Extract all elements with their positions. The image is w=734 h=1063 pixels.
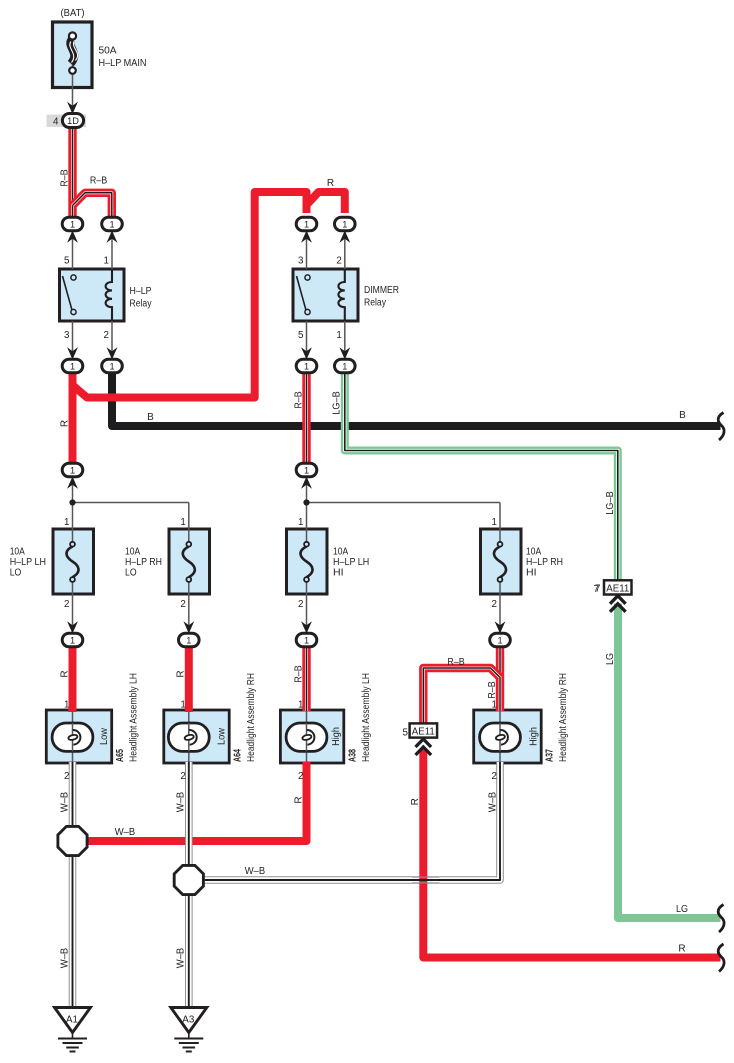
- svg-text:B: B: [679, 410, 686, 421]
- svg-text:Low: Low: [98, 728, 110, 745]
- svg-text:2: 2: [64, 771, 69, 782]
- svg-text:LG: LG: [605, 653, 616, 665]
- svg-text:1: 1: [492, 700, 497, 711]
- svg-text:R–B: R–B: [487, 681, 498, 699]
- svg-text:A37: A37: [545, 749, 556, 762]
- svg-text:Headlight Assembly RH: Headlight Assembly RH: [246, 673, 257, 762]
- svg-text:R: R: [678, 944, 685, 955]
- svg-text:5: 5: [298, 330, 304, 341]
- svg-text:1: 1: [180, 700, 185, 711]
- svg-text:A64: A64: [233, 749, 244, 762]
- svg-text:Headlight Assembly LH: Headlight Assembly LH: [361, 673, 372, 762]
- svg-text:3: 3: [298, 256, 304, 267]
- svg-text:1: 1: [342, 361, 347, 371]
- svg-text:50A: 50A: [99, 46, 117, 57]
- svg-text:LG–B: LG–B: [605, 491, 616, 515]
- svg-text:R: R: [327, 178, 334, 189]
- svg-text:2: 2: [180, 599, 185, 610]
- svg-text:R–B: R–B: [293, 665, 304, 683]
- svg-text:1: 1: [492, 517, 497, 528]
- svg-text:HI: HI: [526, 567, 537, 578]
- svg-text:1: 1: [64, 700, 69, 711]
- svg-text:1: 1: [70, 361, 75, 371]
- svg-text:Relay: Relay: [364, 298, 386, 309]
- svg-text:H–LP MAIN: H–LP MAIN: [99, 58, 147, 69]
- svg-text:Relay: Relay: [130, 299, 152, 310]
- svg-text:1: 1: [304, 465, 309, 475]
- svg-text:1: 1: [104, 256, 109, 267]
- svg-text:1: 1: [304, 361, 309, 371]
- svg-text:A1: A1: [66, 1015, 78, 1026]
- svg-text:5: 5: [403, 728, 409, 739]
- svg-text:R: R: [410, 798, 421, 805]
- svg-text:High: High: [528, 727, 540, 746]
- svg-text:LO: LO: [125, 567, 137, 578]
- svg-text:LO: LO: [10, 567, 22, 578]
- svg-text:A38: A38: [347, 749, 358, 762]
- svg-text:2: 2: [336, 256, 341, 267]
- svg-text:2: 2: [492, 771, 497, 782]
- svg-text:R: R: [59, 670, 70, 677]
- svg-text:1: 1: [70, 465, 75, 475]
- svg-text:W–B: W–B: [245, 866, 266, 877]
- svg-text:A65: A65: [115, 749, 126, 762]
- svg-text:Headlight Assembly RH: Headlight Assembly RH: [558, 673, 569, 762]
- svg-text:1: 1: [109, 219, 114, 229]
- svg-text:4: 4: [53, 117, 59, 128]
- svg-text:10A: 10A: [125, 547, 140, 558]
- svg-text:W–B: W–B: [176, 947, 187, 968]
- svg-text:High: High: [330, 727, 342, 746]
- svg-text:7: 7: [594, 584, 599, 595]
- svg-text:LG–B: LG–B: [332, 391, 343, 415]
- svg-text:R: R: [293, 796, 304, 803]
- svg-text:R–B: R–B: [293, 391, 304, 409]
- svg-text:W–B: W–B: [59, 791, 70, 812]
- svg-text:(BAT): (BAT): [61, 8, 85, 19]
- svg-text:2: 2: [64, 599, 69, 610]
- svg-text:W–B: W–B: [488, 791, 499, 812]
- svg-text:R: R: [59, 420, 70, 427]
- svg-text:AE11: AE11: [412, 726, 435, 737]
- svg-text:Low: Low: [216, 728, 228, 745]
- svg-text:1: 1: [304, 635, 309, 645]
- svg-text:Headlight Assembly LH: Headlight Assembly LH: [129, 673, 140, 762]
- svg-text:2: 2: [104, 330, 109, 341]
- svg-text:3: 3: [64, 330, 70, 341]
- svg-text:R–B: R–B: [447, 657, 465, 668]
- svg-text:1: 1: [342, 219, 347, 229]
- svg-text:1: 1: [298, 700, 303, 711]
- svg-text:1: 1: [70, 219, 75, 229]
- svg-text:1: 1: [304, 219, 309, 229]
- svg-text:1: 1: [186, 635, 191, 645]
- svg-text:1: 1: [70, 635, 75, 645]
- svg-text:DIMMER: DIMMER: [364, 285, 399, 296]
- svg-text:AE11: AE11: [606, 583, 629, 594]
- svg-text:1: 1: [497, 635, 502, 645]
- svg-text:5: 5: [64, 256, 70, 267]
- svg-text:2: 2: [180, 771, 185, 782]
- svg-text:B: B: [147, 412, 154, 423]
- svg-text:W–B: W–B: [115, 827, 136, 838]
- svg-text:1: 1: [180, 517, 185, 528]
- svg-text:1: 1: [298, 517, 303, 528]
- svg-text:10A: 10A: [333, 547, 348, 558]
- svg-text:10A: 10A: [10, 547, 25, 558]
- svg-text:1: 1: [109, 361, 114, 371]
- svg-text:R–B: R–B: [90, 176, 108, 187]
- svg-text:R: R: [176, 670, 187, 677]
- svg-text:LG: LG: [676, 904, 688, 915]
- svg-text:1: 1: [64, 517, 69, 528]
- svg-text:R–B: R–B: [59, 169, 70, 187]
- svg-text:2: 2: [298, 599, 303, 610]
- svg-text:HI: HI: [333, 567, 344, 578]
- svg-text:A3: A3: [182, 1015, 195, 1026]
- svg-text:W–B: W–B: [59, 947, 70, 968]
- svg-text:2: 2: [492, 599, 497, 610]
- svg-text:1: 1: [336, 330, 341, 341]
- svg-text:10A: 10A: [526, 547, 541, 558]
- svg-text:1D: 1D: [67, 116, 79, 126]
- svg-text:H–LP: H–LP: [130, 286, 152, 297]
- svg-text:W–B: W–B: [176, 791, 187, 812]
- svg-text:2: 2: [298, 771, 303, 782]
